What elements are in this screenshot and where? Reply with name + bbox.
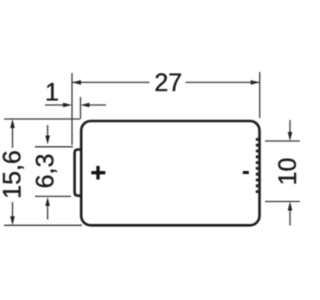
svg-text:1: 1	[45, 79, 59, 107]
svg-text:6,3: 6,3	[32, 154, 60, 189]
svg-text:27: 27	[154, 69, 182, 97]
svg-text:10: 10	[274, 158, 300, 186]
svg-text:15,6: 15,6	[0, 150, 26, 199]
